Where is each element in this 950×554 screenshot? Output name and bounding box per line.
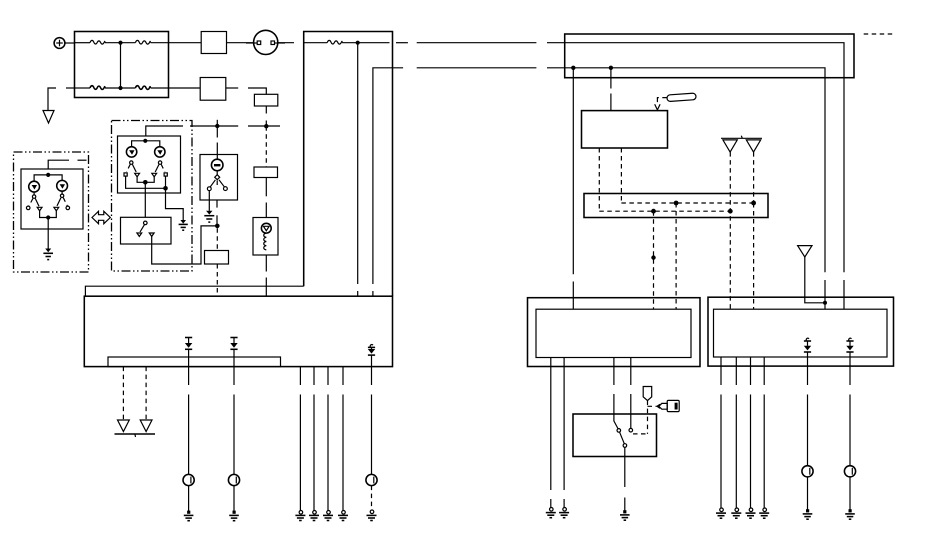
wire bbox=[278, 42, 294, 44]
terminal strip bbox=[108, 357, 281, 367]
wire down to ECU bbox=[572, 68, 574, 274]
wire down to control unit bbox=[610, 68, 612, 89]
ground wire g2 bbox=[309, 367, 319, 521]
wire dashed to bus bbox=[216, 264, 218, 296]
distribution rect bbox=[584, 152, 768, 309]
left dashdot variant box bbox=[14, 152, 111, 272]
diode D5 bbox=[846, 338, 853, 366]
lamp L2 bbox=[57, 180, 68, 191]
control unit K bbox=[582, 93, 697, 211]
top right box bbox=[565, 34, 893, 309]
wires to relay bbox=[613, 358, 615, 386]
lamp L4 bbox=[155, 147, 165, 157]
wire down to sensor bbox=[216, 126, 218, 138]
ground wire g3 bbox=[323, 367, 333, 521]
connector X5 bbox=[254, 167, 278, 178]
common bar bbox=[40, 211, 57, 218]
wire to earth 5 bbox=[844, 366, 855, 519]
wire out to node A bbox=[152, 226, 216, 264]
dashed key links bbox=[647, 401, 649, 434]
antenna single bbox=[798, 246, 812, 257]
wire 30 inside bbox=[565, 43, 844, 273]
wire to ground right bbox=[166, 188, 184, 220]
wire left pin to ground bbox=[208, 191, 210, 211]
switch contacts bbox=[614, 414, 618, 429]
fuse F1 bbox=[90, 40, 105, 44]
ground wires g5-g8 bbox=[716, 357, 726, 518]
wire dashed bbox=[265, 126, 267, 167]
wire bbox=[226, 87, 238, 89]
wire stub left + down arrow bbox=[48, 88, 56, 111]
switch under L2 bbox=[61, 191, 63, 194]
wire corner to column bbox=[248, 88, 266, 94]
switch under L4 bbox=[158, 161, 161, 164]
wire to ground bbox=[47, 218, 49, 249]
wire bbox=[265, 178, 267, 197]
diode D4 bbox=[804, 338, 811, 366]
bottom right wires bbox=[716, 357, 856, 519]
ECU left bbox=[528, 298, 701, 518]
heater unit bbox=[253, 218, 278, 256]
ground bbox=[180, 220, 186, 224]
diagnosis pill bbox=[667, 93, 696, 102]
inner unit rect bbox=[21, 169, 83, 229]
wire dashed down bbox=[216, 228, 218, 250]
wire bbox=[265, 106, 267, 114]
output wires to earth bbox=[546, 358, 556, 518]
node split bbox=[143, 139, 147, 143]
component column bbox=[190, 94, 280, 296]
ground wire g1 bbox=[295, 367, 305, 521]
connectors top bbox=[169, 30, 295, 100]
link wire bbox=[120, 43, 122, 88]
outer common bar bbox=[126, 176, 166, 188]
wire bbox=[169, 87, 201, 89]
wire bbox=[169, 42, 202, 44]
switch under L1 bbox=[33, 192, 35, 195]
dashed net A bbox=[621, 202, 753, 204]
ground bbox=[206, 211, 212, 215]
antenna triangles bbox=[721, 137, 762, 139]
wire from dot down bbox=[357, 43, 359, 284]
plug connector round bbox=[254, 30, 278, 54]
diode D3 bbox=[368, 345, 375, 367]
wire node row y126 bbox=[190, 125, 238, 127]
wire 15 inside bbox=[565, 68, 825, 272]
wire 30 inside bbox=[304, 42, 328, 44]
switch under L3 bbox=[130, 161, 133, 164]
lamp L1 bbox=[29, 181, 40, 192]
wire from column left edge bbox=[85, 286, 303, 296]
battery B+ terminal bbox=[54, 38, 74, 49]
ECU right bbox=[708, 297, 894, 366]
ground wire g4 bbox=[338, 367, 348, 521]
relay switch box bbox=[573, 387, 679, 521]
wire top bbox=[146, 126, 183, 136]
ground bbox=[45, 249, 51, 253]
wire 30 top bbox=[75, 42, 91, 44]
fuse F4 bbox=[135, 86, 150, 90]
wire to bus bbox=[265, 255, 267, 272]
wire bbox=[227, 42, 254, 44]
fuse box F bbox=[43, 32, 169, 124]
wire to earth 1 bbox=[188, 367, 190, 385]
bus box bbox=[84, 286, 392, 366]
connector X4 bbox=[254, 94, 277, 106]
inner common bar bbox=[137, 177, 154, 183]
output wire bbox=[624, 447, 626, 456]
middle dashdot box bbox=[112, 121, 216, 272]
wire center down bbox=[144, 182, 146, 217]
dashed stubs with arrows bbox=[122, 367, 124, 420]
wire bottom bbox=[75, 87, 91, 89]
switch S2 bbox=[144, 221, 148, 225]
lamp L3 bbox=[126, 147, 136, 157]
bottom left wires bbox=[115, 367, 378, 521]
equivalence arrow bbox=[92, 211, 110, 223]
sensor switch unit bbox=[200, 155, 238, 201]
key transponder pennant bbox=[643, 387, 652, 401]
wire to earth 4 bbox=[802, 366, 813, 519]
wire to earth 3 bbox=[366, 367, 377, 521]
diode D2 bbox=[230, 338, 237, 367]
fuse F3 bbox=[90, 86, 105, 90]
dashed net B bbox=[599, 210, 730, 212]
wire 15 bbox=[373, 68, 403, 284]
tall carrier column bbox=[304, 32, 565, 297]
dashed outputs bbox=[598, 148, 600, 211]
wire mid pin to node A bbox=[216, 200, 218, 208]
connector X3 bbox=[205, 251, 229, 265]
inner unit rect bbox=[118, 136, 181, 193]
wire to earth 2 bbox=[233, 367, 235, 385]
fuse F2 bbox=[135, 40, 150, 44]
dashed verticals bbox=[653, 211, 655, 309]
ignition key bbox=[659, 400, 679, 411]
fuse F5 bbox=[327, 40, 342, 44]
diode D1 bbox=[185, 338, 192, 367]
connector X2 bbox=[200, 78, 226, 101]
connector X1 bbox=[201, 32, 226, 54]
wire top bbox=[48, 160, 69, 169]
node split bbox=[46, 173, 50, 177]
switch unit rect bbox=[121, 217, 172, 244]
dashed continuation bbox=[864, 33, 893, 35]
